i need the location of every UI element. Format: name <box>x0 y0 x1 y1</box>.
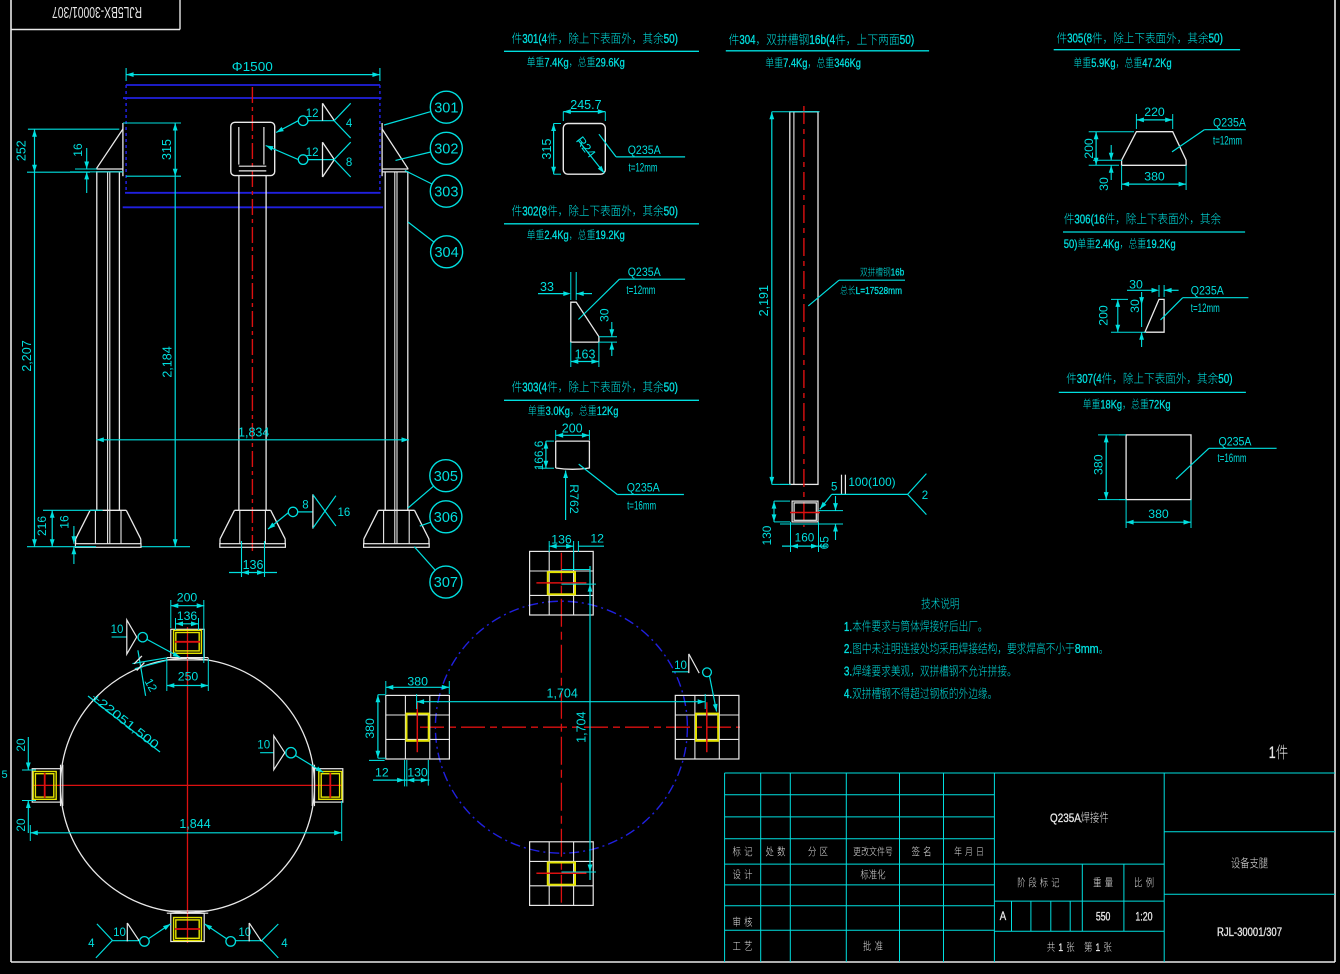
svg-text:Q235A: Q235A <box>1050 811 1081 825</box>
svg-text:50): 50) <box>900 32 915 47</box>
svg-text:245.7: 245.7 <box>570 98 601 112</box>
svg-text:16: 16 <box>58 515 72 529</box>
svg-text:12: 12 <box>590 532 604 546</box>
svg-text:8mm: 8mm <box>1075 641 1099 656</box>
svg-text:301: 301 <box>434 100 458 116</box>
svg-text:2,184: 2,184 <box>160 346 174 377</box>
svg-text:307(4: 307(4 <box>1077 372 1102 386</box>
svg-text:306: 306 <box>434 510 458 526</box>
svg-text:304: 304 <box>434 245 458 261</box>
svg-text:16: 16 <box>338 507 351 519</box>
svg-text:1.: 1. <box>844 619 852 634</box>
svg-text:5.9Kg: 5.9Kg <box>1091 56 1115 70</box>
svg-text:4.: 4. <box>844 686 852 701</box>
svg-text:136: 136 <box>177 609 198 623</box>
svg-text:50): 50) <box>1064 237 1078 251</box>
svg-text:19.2Kg: 19.2Kg <box>596 228 625 242</box>
svg-text:1: 1 <box>1096 942 1101 954</box>
svg-text:200: 200 <box>1096 305 1110 326</box>
svg-text:4: 4 <box>346 118 353 130</box>
svg-text:t=16mm: t=16mm <box>1218 451 1247 465</box>
svg-text:163: 163 <box>575 347 596 361</box>
svg-text:RJL-30001/307: RJL-30001/307 <box>1217 925 1282 939</box>
svg-text:307: 307 <box>434 575 458 591</box>
svg-text:7.4Kg: 7.4Kg <box>544 55 568 69</box>
svg-text:200: 200 <box>562 421 583 435</box>
svg-text:8: 8 <box>302 500 308 512</box>
svg-text:1,704: 1,704 <box>574 712 588 743</box>
svg-text:20: 20 <box>14 738 28 752</box>
svg-text:18Kg: 18Kg <box>1100 397 1122 411</box>
svg-text:5: 5 <box>831 481 837 493</box>
svg-text:304: 304 <box>739 32 755 47</box>
svg-text:166.6: 166.6 <box>532 440 546 470</box>
svg-text:2.4Kg: 2.4Kg <box>1095 237 1119 251</box>
svg-text:303(4: 303(4 <box>522 380 547 394</box>
svg-text:19.2Kg: 19.2Kg <box>1146 237 1175 251</box>
svg-text:550: 550 <box>1096 912 1111 924</box>
svg-text:1,844: 1,844 <box>179 817 210 831</box>
svg-text:100(100): 100(100) <box>848 475 895 489</box>
svg-text:50): 50) <box>1209 32 1223 46</box>
svg-text:136: 136 <box>551 533 572 547</box>
svg-text:10: 10 <box>111 624 124 636</box>
svg-text:t=16mm: t=16mm <box>627 499 656 513</box>
svg-text:2.: 2. <box>844 641 852 656</box>
svg-text:160: 160 <box>795 531 815 545</box>
svg-text:A: A <box>1000 911 1007 923</box>
svg-text:Q235A: Q235A <box>1191 284 1225 298</box>
svg-text:2: 2 <box>922 490 928 502</box>
svg-text:t=12mm: t=12mm <box>629 161 658 175</box>
svg-text:t=12mm: t=12mm <box>1213 133 1242 147</box>
svg-text:200: 200 <box>1082 138 1096 159</box>
svg-text:380: 380 <box>1091 454 1105 475</box>
svg-text:315: 315 <box>160 139 174 160</box>
svg-text:50): 50) <box>664 380 678 394</box>
svg-text:380: 380 <box>1144 169 1165 183</box>
svg-text:7.4Kg: 7.4Kg <box>783 56 807 70</box>
svg-text:L=17528mm: L=17528mm <box>856 286 902 297</box>
svg-text:220: 220 <box>1144 105 1165 119</box>
svg-text:30: 30 <box>597 308 611 322</box>
svg-text:2.4Kg: 2.4Kg <box>544 228 568 242</box>
svg-text:306(16: 306(16 <box>1074 212 1104 226</box>
svg-text:12: 12 <box>306 108 319 120</box>
svg-text:t=12mm: t=12mm <box>626 283 655 297</box>
svg-text:8: 8 <box>346 157 352 169</box>
svg-text:33: 33 <box>540 280 554 294</box>
svg-text:315: 315 <box>540 139 554 160</box>
svg-text:1,704: 1,704 <box>547 687 578 701</box>
svg-text:16: 16 <box>71 143 85 157</box>
svg-text:380: 380 <box>363 718 377 739</box>
svg-text:130: 130 <box>760 525 774 545</box>
svg-text:Q235A: Q235A <box>628 143 662 157</box>
svg-text:12: 12 <box>306 147 319 159</box>
svg-text:3.: 3. <box>844 664 852 679</box>
svg-text:10: 10 <box>113 927 126 939</box>
svg-text:1:20: 1:20 <box>1135 912 1152 924</box>
svg-text:1,834: 1,834 <box>238 425 269 439</box>
svg-text:12: 12 <box>375 766 389 780</box>
svg-text:200: 200 <box>177 591 198 605</box>
svg-text:30: 30 <box>1097 177 1111 191</box>
svg-text:380: 380 <box>407 675 428 689</box>
svg-text:1: 1 <box>1269 744 1276 762</box>
svg-text:t=12mm: t=12mm <box>1191 301 1220 315</box>
svg-text:5: 5 <box>1 769 7 781</box>
svg-text:302: 302 <box>434 141 458 157</box>
svg-text:10: 10 <box>674 660 687 672</box>
svg-text:20: 20 <box>14 818 28 832</box>
svg-text:RJL5BX-30001/307: RJL5BX-30001/307 <box>52 3 142 20</box>
svg-text:Q235A: Q235A <box>1213 116 1247 130</box>
svg-text:47.2Kg: 47.2Kg <box>1142 56 1171 70</box>
svg-text:30: 30 <box>1129 277 1143 291</box>
svg-text:50): 50) <box>664 32 678 46</box>
svg-text:1: 1 <box>1058 942 1063 954</box>
svg-text:302(8: 302(8 <box>522 204 547 218</box>
svg-text:346Kg: 346Kg <box>834 56 861 70</box>
svg-text:305: 305 <box>434 469 458 485</box>
svg-text:250: 250 <box>178 669 199 683</box>
svg-text:252: 252 <box>14 140 28 161</box>
svg-text:2,191: 2,191 <box>757 285 771 316</box>
svg-text:3.0Kg: 3.0Kg <box>546 404 570 418</box>
svg-text:10: 10 <box>257 740 270 752</box>
svg-text:Q235A: Q235A <box>628 265 662 279</box>
svg-text:136: 136 <box>243 558 264 572</box>
svg-text:2,207: 2,207 <box>20 340 34 371</box>
svg-text:Q235A: Q235A <box>627 481 661 495</box>
svg-text:Q235A: Q235A <box>1219 434 1253 448</box>
svg-text:Φ1500: Φ1500 <box>232 59 273 74</box>
svg-text:216: 216 <box>35 516 49 536</box>
svg-text:16b(4: 16b(4 <box>809 32 835 47</box>
svg-text:12Kg: 12Kg <box>597 404 619 418</box>
svg-text:305(8: 305(8 <box>1067 32 1092 46</box>
svg-text:4: 4 <box>88 938 95 950</box>
svg-text:29.6Kg: 29.6Kg <box>596 55 625 69</box>
svg-text:4: 4 <box>281 938 288 950</box>
svg-text:380: 380 <box>1148 507 1169 521</box>
svg-text:303: 303 <box>434 184 458 200</box>
svg-text:65: 65 <box>818 536 832 550</box>
svg-text:50): 50) <box>1218 372 1232 386</box>
svg-text:16b: 16b <box>891 268 905 279</box>
svg-text:R762: R762 <box>567 484 581 514</box>
svg-text:30: 30 <box>1128 299 1142 313</box>
svg-text:72Kg: 72Kg <box>1149 397 1171 411</box>
svg-text:130: 130 <box>407 766 428 780</box>
svg-text:301(4: 301(4 <box>522 32 547 46</box>
svg-text:50): 50) <box>664 204 678 218</box>
